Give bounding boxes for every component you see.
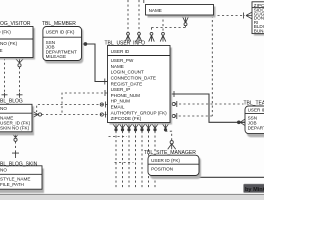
wire: horizontal dashed jog y162.5 — [115, 162, 134, 164]
wire: NAME box to USER_INFO top x151.5 (via y27.5 channel) — [151, 28, 153, 33]
wire: dashed into USER_INFO left at y93, corner down at x62 — [62, 93, 108, 115]
svg-text:USER ID (FK): USER ID (FK) — [46, 29, 75, 34]
svg-text:USER ID (FK): USER ID (FK) — [248, 108, 264, 113]
entity TBL_TEACHER — [244, 101, 280, 138]
wire: TBL_MEMBER to TBL_USER_INFO (solid, dot at member end, tick at info end) — [84, 43, 87, 46]
wire: dashed into USER_INFO right y116 (circle+tick) — [170, 115, 212, 117]
wire: solid USER_INFO to TBL_TEACHER (tick at info, dot+crow at teacher) — [170, 94, 245, 122]
svg-text:TBL_USER_INFO: TBL_USER_INFO — [105, 40, 146, 46]
wire: TBL_BLOG to TBL_BLOG_SKIN (crow foot + circle at blog end) — [12, 132, 20, 137]
wire: dashed L into BLOG right edge (from USER_INFO y104.5) — [32, 105, 107, 112]
svg-text:OG_VISITOR: OG_VISITOR — [0, 21, 31, 27]
watermark by MinG — [244, 184, 268, 193]
wire: NAME box to USER_INFO top x163 — [162, 15, 164, 32]
wire: USER_INFO to TBL_SITE_MANAGER (crow+dot then jog) — [162, 123, 169, 128]
entity ZIPCODE — [252, 2, 276, 36]
wire: crow foot + circle under NAME box x185.5 — [182, 15, 189, 22]
wires: 7 dashed verticals from USER_INFO bottom with crow+dot — [113, 123, 159, 131]
svg-text:USER ID (FK): USER ID (FK) — [151, 158, 180, 163]
svg-text:ZIPCODE (FK): ZIPCODE (FK) — [111, 116, 142, 121]
wire: long vertical dashed x212.3 from y15.5 to y116 — [211, 16, 213, 117]
svg-text:EMAIL: EMAIL — [111, 105, 125, 110]
svg-text:BUNJI: BUNJI — [254, 28, 264, 33]
svg-text:TBL_SITE_MANAGER: TBL_SITE_MANAGER — [144, 150, 196, 156]
svg-text:PHONE_NUM: PHONE_NUM — [111, 93, 141, 98]
wire: vertical dashed from top edge into USER_INFO top x139 — [138, 0, 140, 32]
svg-text:MILEAGE: MILEAGE — [46, 54, 66, 59]
svg-text:LOGIN_COUNT: LOGIN_COUNT — [111, 70, 144, 75]
svg-text:NO (FK): NO (FK) — [0, 41, 18, 46]
svg-text:FILE_PATH: FILE_PATH — [0, 182, 24, 187]
entity TBL_BLOG_VISITOR — [0, 21, 35, 60]
wire: dashed from USER_INFO right y105.5 to TEACHER area — [170, 103, 244, 105]
svg-text:REGIST_DATE: REGIST_DATE — [111, 81, 143, 86]
svg-text:BL_BLOG_SKIN: BL_BLOG_SKIN — [0, 161, 38, 167]
svg-text:AUTHORITY_GROUP (FK): AUTHORITY_GROUP (FK) — [111, 110, 168, 115]
svg-text:NAME: NAME — [111, 64, 124, 69]
svg-text:NO: NO — [0, 168, 7, 173]
svg-text:STYLE_NAME: STYLE_NAME — [0, 177, 30, 182]
wire: dashed from NAME corner to ZIPCODE (crow at zipcode end) — [213, 15, 245, 17]
entity TBL_USER_INFO — [105, 40, 173, 124]
entity TBL_MEMBER — [42, 21, 83, 64]
svg-text:DEPARTMENT: DEPARTMENT — [248, 125, 264, 130]
svg-text:O (FK): O (FK) — [0, 30, 11, 35]
entity TBL_BLOG — [0, 99, 34, 136]
svg-text:SKIN NO (FK): SKIN NO (FK) — [0, 125, 30, 130]
entity TBL_SITE_MANAGER — [144, 150, 201, 179]
svg-text:TBL_TEACHER: TBL_TEACHER — [244, 101, 265, 107]
svg-text:ATE: ATE — [0, 48, 3, 53]
wire: vertical dashed from top edge into USER_INFO top x128 — [127, 0, 129, 32]
wire: TBL_BLOG to TBL_USER_INFO (dashed y114.5, crow at blog end, circle+tick at info) — [42, 114, 108, 116]
entity NAME box (authority group remnant) — [146, 5, 216, 18]
entity TBL_BLOG_SKIN — [0, 161, 44, 193]
svg-text:by MinG: by MinG — [245, 187, 264, 193]
svg-text:BL_BLOG: BL_BLOG — [0, 99, 23, 105]
svg-text:CONNECTION_DATE: CONNECTION_DATE — [111, 76, 156, 81]
svg-text:NO: NO — [0, 106, 7, 111]
svg-text:USER_PW: USER_PW — [111, 58, 134, 63]
svg-text:USER ID: USER ID — [111, 49, 130, 54]
svg-text:USER_IP: USER_IP — [111, 87, 131, 92]
bottom gray bar — [0, 195, 264, 201]
svg-text:POSITION: POSITION — [151, 166, 173, 171]
wire: TBL_BLOG_VISITOR to TBL_BLOG (left vertical, plain) — [4, 58, 6, 93]
wire: solid line right of SITE_MANAGER bottom y177.3 — [199, 176, 264, 178]
wire: horizontal dashed channel y27.5 under NAME box — [152, 27, 186, 29]
wire: horizontal dashed jog y136.5 — [109, 136, 128, 138]
wire: TBL_BLOG_VISITOR to TBL_BLOG (crow foot + circle at visitor end) — [16, 58, 24, 63]
svg-text:NAME: NAME — [149, 8, 162, 13]
svg-text:TBL_MEMBER: TBL_MEMBER — [42, 21, 76, 27]
svg-text:HP_NUM: HP_NUM — [111, 99, 131, 104]
wire: stub at top edge left of NAME box — [143, 0, 145, 3]
